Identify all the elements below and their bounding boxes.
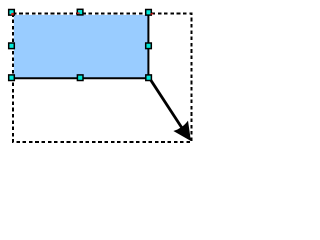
arrow shaft <box>151 80 182 128</box>
dashed resize-preview outline <box>13 14 192 142</box>
handle bottom-left <box>9 75 15 81</box>
handle middle-right <box>146 43 152 49</box>
red mark in top-middle handle <box>77 13 80 14</box>
red mark in top-left handle <box>11 13 13 15</box>
handle top-middle <box>77 9 83 15</box>
arrowhead <box>173 121 191 141</box>
rectangle right border <box>147 15 149 79</box>
handle bottom-right <box>146 75 152 81</box>
red mark at top-right handle <box>150 13 153 14</box>
rectangle fill (selected blue rectangle) <box>14 15 148 78</box>
rectangle bottom border <box>13 77 149 79</box>
handle top-left <box>9 10 15 16</box>
handle bottom-middle <box>77 75 83 81</box>
handle top-right <box>146 10 152 16</box>
handle middle-left <box>9 43 15 49</box>
